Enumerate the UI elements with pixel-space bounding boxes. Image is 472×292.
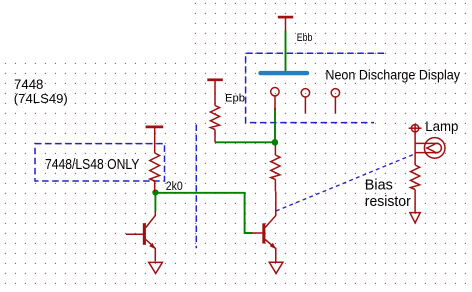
svg-text:Neon Discharge Display: Neon Discharge Display: [325, 67, 460, 83]
svg-text:Lamp: Lamp: [425, 118, 458, 134]
svg-text:Bias: Bias: [365, 177, 393, 194]
svg-text:(74LS49): (74LS49): [14, 91, 68, 106]
svg-text:Ebb: Ebb: [297, 32, 313, 44]
svg-text:Epb: Epb: [225, 93, 245, 105]
svg-text:resistor: resistor: [365, 193, 411, 210]
svg-text:7448/LS48 ONLY: 7448/LS48 ONLY: [45, 156, 139, 173]
svg-text:7448: 7448: [14, 76, 44, 92]
svg-text:2k0: 2k0: [166, 181, 183, 193]
